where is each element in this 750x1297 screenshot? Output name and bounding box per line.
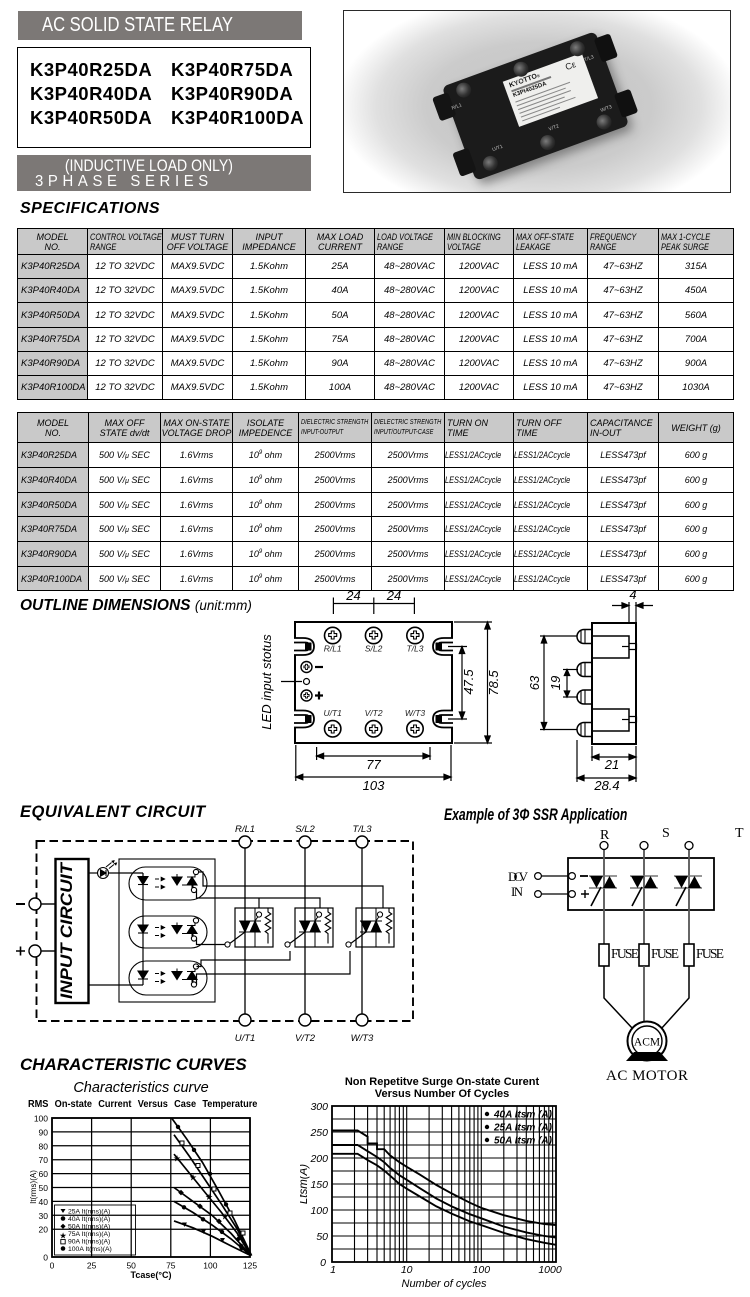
chart 1 titles <box>0 1080 282 1096</box>
minus plus at box <box>580 875 588 877</box>
terminal S/L2 <box>299 836 311 848</box>
opto input bus wire <box>142 873 144 985</box>
svg-text:★: ★ <box>205 1192 213 1202</box>
mounting slot left-top <box>294 638 314 655</box>
wire S/L2 vertical <box>304 848 306 1014</box>
optocoupler PC2 <box>129 916 207 948</box>
svg-text:19: 19 <box>548 676 563 690</box>
mounting tabs <box>432 92 457 121</box>
svg-text:R/L1: R/L1 <box>324 644 342 654</box>
svg-text:75A It(rms)(A): 75A It(rms)(A) <box>68 1231 110 1238</box>
wire opto3 to module2 gate <box>197 951 291 967</box>
dim 47.5 <box>448 647 467 720</box>
LED pointer line <box>281 681 302 683</box>
dim 78.5 <box>454 622 492 743</box>
optocoupler PC1 <box>129 867 207 900</box>
svg-text:90: 90 <box>39 1127 49 1137</box>
axis labels <box>298 1101 562 1290</box>
svg-text:90A It(rms)(A): 90A It(rms)(A) <box>68 1239 110 1246</box>
mounting slot right-top <box>433 638 453 655</box>
svg-text:ACM: ACM <box>634 1037 660 1049</box>
input terminals on box <box>569 873 576 880</box>
svg-text:20: 20 <box>39 1225 49 1235</box>
mounting slot left-bottom <box>294 711 314 728</box>
markers 40A pentagons <box>182 1205 186 1209</box>
photo halo <box>334 0 744 221</box>
LED D1 <box>98 860 118 878</box>
wire S to motor <box>643 966 645 1022</box>
svg-text:80: 80 <box>39 1141 49 1151</box>
svg-text:0: 0 <box>43 1253 48 1263</box>
svg-text:FUSE: FUSE <box>611 946 639 961</box>
circuit node labels <box>235 824 374 1044</box>
side terminal box top <box>592 636 629 658</box>
wire opto1 to module3 top <box>199 872 384 908</box>
svg-text:1000: 1000 <box>538 1264 562 1276</box>
svg-text:4: 4 <box>629 588 636 602</box>
terminal V/T2 <box>299 1014 311 1026</box>
curve 40A <box>174 1201 251 1255</box>
surge curve 50A <box>332 1154 556 1245</box>
product photo frame <box>343 10 731 193</box>
wire to LED <box>89 872 97 874</box>
svg-text:S/L2: S/L2 <box>365 644 383 654</box>
optocoupler PC3 <box>129 961 207 995</box>
side view body <box>592 623 636 744</box>
svg-text:W/T3: W/T3 <box>405 708 426 718</box>
svg-text:★: ★ <box>189 1173 197 1183</box>
OUTLINE DIMENSIONS title <box>20 597 252 615</box>
terminal R <box>600 842 608 850</box>
terminal T/L3 <box>356 836 368 848</box>
wire T phase <box>688 850 690 945</box>
terminal U/T1 <box>239 1014 251 1026</box>
svg-text:S: S <box>662 826 670 841</box>
triac A2 <box>630 876 658 906</box>
svg-text:INPUT CIRCUIT: INPUT CIRCUIT <box>57 861 76 999</box>
svg-text:50A It(rms)(A): 50A It(rms)(A) <box>68 1224 110 1231</box>
svg-text:100: 100 <box>310 1205 328 1217</box>
dc input terminals <box>535 873 542 880</box>
minus plus labels <box>16 904 25 956</box>
svg-text:DCV: DCV <box>508 869 529 884</box>
svg-text:50A Itsm (A): 50A Itsm (A) <box>494 1136 553 1147</box>
triac A1 <box>589 876 617 906</box>
fuse F1 <box>599 944 609 966</box>
minus / plus marks beside LED screws <box>315 667 323 700</box>
wire input circuit to bus bottom <box>89 984 143 986</box>
wire R to motor <box>604 966 633 1029</box>
front view body <box>295 622 452 743</box>
svg-text:40A It(rms)(A): 40A It(rms)(A) <box>68 1216 110 1223</box>
wire T to motor <box>661 966 689 1029</box>
wire R/L1 vertical <box>244 848 246 1014</box>
markers 100A circles <box>176 1125 180 1129</box>
horizontal grid <box>332 1106 556 1262</box>
svg-text:★: ★ <box>173 1154 181 1164</box>
wire minus to input circuit <box>41 903 55 905</box>
dashed enclosure <box>37 841 414 1021</box>
grid <box>52 1118 250 1257</box>
terminal W/T3 <box>356 1014 368 1026</box>
markers 25A triangles <box>182 1223 244 1252</box>
screws top row <box>454 80 473 99</box>
dimension text labels <box>259 587 637 793</box>
curve 100A <box>172 1118 252 1256</box>
fuse F2 <box>639 944 649 966</box>
chart 1 <box>0 1075 310 1297</box>
svg-text:10: 10 <box>401 1264 413 1276</box>
svg-text:T/L3: T/L3 <box>352 824 372 835</box>
triac module M2 <box>285 908 333 947</box>
wire plus to input circuit <box>41 950 55 952</box>
LED lamp <box>304 679 310 685</box>
svg-text:0: 0 <box>50 1261 55 1271</box>
svg-text:0: 0 <box>320 1257 326 1269</box>
white label <box>503 53 598 127</box>
svg-text:LED input stotus: LED input stotus <box>259 634 274 730</box>
motor M <box>628 1022 667 1061</box>
svg-text:Tcase(°C): Tcase(°C) <box>131 1270 172 1280</box>
svg-text:AC MOTOR: AC MOTOR <box>606 1068 688 1084</box>
LED indicator screws <box>301 662 312 702</box>
svg-text:100: 100 <box>473 1264 491 1276</box>
svg-text:70: 70 <box>39 1155 49 1165</box>
legend box <box>55 1205 136 1255</box>
svg-text:100: 100 <box>203 1261 217 1271</box>
wire R phase <box>603 850 605 945</box>
svg-text:24: 24 <box>386 588 401 603</box>
svg-text:40: 40 <box>39 1197 49 1207</box>
svg-text:FUSE: FUSE <box>651 946 679 961</box>
svg-text:50: 50 <box>126 1261 136 1271</box>
surge curve 40A <box>332 1130 556 1225</box>
svg-text:U/T1: U/T1 <box>323 708 342 718</box>
terminal screws with phillips heads <box>325 627 424 737</box>
dim 77 bottom <box>317 747 430 760</box>
chart 2 <box>300 1075 600 1297</box>
dim 63 <box>540 636 577 730</box>
equivalent circuit drawing <box>0 795 750 1095</box>
svg-text:T: T <box>735 826 744 841</box>
wire S phase <box>643 850 645 945</box>
svg-text:50: 50 <box>316 1231 328 1243</box>
svg-text:It(rms)(A): It(rms)(A) <box>29 1170 38 1204</box>
svg-text:T/L3: T/L3 <box>406 644 423 654</box>
svg-text:63: 63 <box>527 675 542 690</box>
wire T/L3 vertical <box>361 848 363 1014</box>
legend entries <box>493 1110 553 1147</box>
opto group box <box>119 859 215 1002</box>
svg-text:250: 250 <box>309 1127 328 1139</box>
dim 4 top of side view <box>612 602 653 622</box>
svg-text:21: 21 <box>604 757 619 772</box>
svg-text:25A It(rms)(A): 25A It(rms)(A) <box>68 1209 110 1216</box>
specifications table 1 <box>17 228 734 400</box>
svg-text:25: 25 <box>87 1261 97 1271</box>
svg-text:S/L2: S/L2 <box>295 824 315 835</box>
svg-text:100A It(ms)(A): 100A It(ms)(A) <box>68 1246 112 1253</box>
svg-text:77: 77 <box>366 757 381 772</box>
terminal lug covers (bullets) <box>577 630 592 737</box>
svg-text:25A Itsm (A): 25A Itsm (A) <box>493 1123 553 1134</box>
svg-text:R: R <box>600 828 610 843</box>
svg-text:★: ★ <box>59 1231 67 1241</box>
dim 28.4 <box>577 740 636 782</box>
wire opto2 to module1 gate <box>197 939 226 945</box>
curve 75A <box>174 1154 251 1256</box>
inductive load bar <box>17 155 311 191</box>
svg-text:U/T1: U/T1 <box>235 1033 256 1044</box>
motor base <box>626 1052 668 1061</box>
svg-text:W/T3: W/T3 <box>351 1033 374 1044</box>
svg-text:FUSE: FUSE <box>696 946 724 961</box>
terminal plus <box>29 945 41 957</box>
header bar: AC SOLID STATE RELAY <box>18 11 302 40</box>
svg-text:100: 100 <box>34 1114 48 1124</box>
model number box <box>17 47 311 148</box>
wire opto3 to module3 gate <box>197 951 351 985</box>
markers 75A stars <box>173 1154 244 1242</box>
svg-text:47.5: 47.5 <box>461 669 476 695</box>
markers 50A diamonds <box>178 1190 241 1242</box>
terminal R/L1 <box>239 836 251 848</box>
dc input wires <box>542 875 569 877</box>
svg-text:28.4: 28.4 <box>593 778 619 793</box>
svg-text:Number of cycles: Number of cycles <box>402 1278 487 1290</box>
svg-text:1: 1 <box>330 1264 336 1276</box>
mounting slot right-bottom <box>433 711 453 728</box>
axis labels <box>29 1114 257 1281</box>
dim 24/24 top <box>333 598 414 615</box>
SSR box <box>568 858 714 910</box>
svg-text:150: 150 <box>310 1179 328 1191</box>
wire opto1 to modules 1,2 top <box>197 890 321 908</box>
curve 90A <box>174 1135 251 1256</box>
EQUIVALENT CIRCUIT title <box>20 803 206 822</box>
specifications table 2 <box>17 412 734 591</box>
outline dimensions drawing <box>0 588 750 800</box>
fuse F3 <box>684 944 694 966</box>
application example title <box>444 806 692 825</box>
svg-text:40A Itsm (A): 40A Itsm (A) <box>493 1110 553 1121</box>
log grid vertical <box>332 1106 556 1262</box>
svg-text:IN: IN <box>511 884 524 899</box>
svg-text:200: 200 <box>309 1153 328 1165</box>
SPECIFICATIONS title <box>20 200 160 218</box>
legend background <box>332 1130 556 1244</box>
svg-text:75: 75 <box>166 1261 176 1271</box>
svg-text:Ltsm(A): Ltsm(A) <box>300 1164 310 1204</box>
chart 2 titles <box>322 1076 562 1100</box>
markers 90A squares <box>180 1141 245 1235</box>
application labels <box>508 826 744 1084</box>
terminal S <box>640 842 648 850</box>
tiny white terminal labels <box>451 102 463 111</box>
terminal T <box>685 842 693 850</box>
svg-text:300: 300 <box>310 1101 328 1113</box>
input circuit box U1 <box>56 859 89 1003</box>
CHARACTERISTIC CURVES title <box>20 1055 247 1075</box>
svg-text:30: 30 <box>39 1211 49 1221</box>
svg-text:R/L1: R/L1 <box>235 824 255 835</box>
triac module M3 <box>346 908 394 947</box>
application example drawing <box>430 820 750 1095</box>
svg-text:50: 50 <box>39 1183 49 1193</box>
triac A3 <box>674 876 702 906</box>
surge curve 25A <box>332 1145 556 1238</box>
triac module M1 <box>225 908 273 947</box>
dim 19 <box>563 670 578 698</box>
svg-text:V/T2: V/T2 <box>295 1033 316 1044</box>
svg-text:103: 103 <box>363 778 385 793</box>
curve 50A <box>174 1188 251 1256</box>
terminal minus <box>29 898 41 910</box>
svg-text:24: 24 <box>345 588 360 603</box>
curve 25A <box>174 1221 251 1256</box>
dim 103 bottom <box>296 745 451 781</box>
svg-text:V/T2: V/T2 <box>365 708 383 718</box>
side terminal box bottom <box>592 709 629 731</box>
screws bottom row <box>481 154 500 173</box>
svg-text:125: 125 <box>243 1261 257 1271</box>
svg-text:60: 60 <box>39 1169 49 1179</box>
dim 21 <box>592 746 636 782</box>
svg-text:★: ★ <box>221 1212 229 1222</box>
wire LED to bus <box>109 872 144 874</box>
relay body (rotated) <box>442 31 629 181</box>
svg-text:78.5: 78.5 <box>486 670 501 696</box>
